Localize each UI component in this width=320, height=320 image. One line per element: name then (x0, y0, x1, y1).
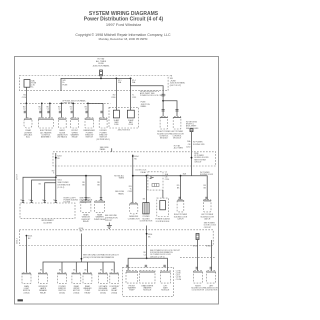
connector tick S3 (59, 111, 61, 113)
wire node down to cluster (55, 176, 57, 203)
component rear washer pump relay (95, 201, 105, 213)
instrument cluster dashed box (20, 203, 75, 218)
svg-text:CIRCUIT: CIRCUIT (105, 220, 113, 222)
svg-text:C281: C281 (132, 97, 136, 99)
svg-text:BK: BK (111, 270, 114, 272)
svg-text:MODULE: MODULE (160, 138, 169, 140)
module2 connector ticks (176, 109, 179, 111)
ticks R1 (196, 267, 198, 269)
left bus wire 3 (45, 183, 56, 203)
page footer mark (18, 299, 23, 301)
svg-text:BK: BK (100, 270, 103, 272)
ground fan node (81, 258, 83, 260)
component module B (140, 271, 155, 283)
component power sliding door motor (143, 203, 149, 214)
wire relay to door module (162, 190, 164, 198)
svg-text:A/C): A/C) (26, 136, 30, 139)
svg-text:(G304): (G304) (111, 292, 117, 294)
component module C (160, 271, 170, 283)
svg-text:C126: C126 (22, 97, 26, 99)
dashed segment right of M (180, 257, 216, 259)
component right sliding door lock motor (193, 271, 202, 283)
svg-text:C270 8: C270 8 (16, 174, 18, 180)
component data link connector (130, 203, 138, 214)
right bus wire (133, 176, 207, 200)
svg-text:PANEL: PANEL (118, 193, 124, 196)
component interior lamps (39, 273, 48, 284)
svg-text:(W/ PWR WDO): (W/ PWR WDO) (96, 139, 110, 141)
component courtesy lamps (110, 273, 119, 284)
component rear washer pump (83, 273, 92, 284)
splice node S203 (55, 157, 57, 159)
component right power sliding door control module (160, 116, 168, 129)
ticks M drop 1 (126, 265, 128, 267)
svg-text:20A: 20A (187, 140, 191, 143)
svg-text:TIMES: TIMES (119, 178, 125, 180)
maxi fuse 1 box (113, 110, 119, 118)
body harness dashed band (53, 152, 216, 166)
svg-text:30 AMP: 30 AMP (128, 119, 134, 122)
svg-text:RELAY: RELAY (40, 291, 47, 294)
relay dashed box (148, 172, 163, 190)
svg-text:(G304): (G304) (24, 292, 30, 294)
component left sliding door lock motor (207, 271, 216, 283)
svg-text:MODULE: MODULE (143, 290, 152, 292)
component radio (58, 118, 66, 128)
svg-text:CONNECTOR: CONNECTOR (128, 218, 141, 220)
splice node S2b (49, 103, 51, 105)
wire S1 down (25, 103, 27, 117)
svg-text:C2: C2 (58, 109, 60, 111)
svg-text:PANEL: PANEL (141, 105, 147, 108)
connector tick S2 (39, 111, 41, 113)
svg-text:BK: BK (39, 183, 42, 185)
splice node S204 (132, 155, 134, 157)
svg-text:CLUSTER: CLUSTER (43, 222, 52, 224)
svg-text:B+: B+ (31, 86, 33, 88)
splice node S4 (72, 103, 74, 105)
component front wiper (71, 118, 79, 128)
component power window switch (99, 118, 107, 128)
left bus wire 1 (23, 177, 56, 203)
svg-text:BK: BK (73, 270, 76, 272)
svg-text:W/S-B: W/S-B (206, 245, 212, 247)
svg-text:SWITCH: SWITCH (86, 137, 94, 139)
svg-text:CIRCUIT: CIRCUIT (204, 227, 212, 229)
svg-text:1997 Ford Windstar: 1997 Ford Windstar (106, 22, 142, 27)
junction node fuse feed (100, 78, 102, 80)
svg-text:W/S-B: W/S-B (193, 245, 199, 247)
svg-text:(1 OF 4): (1 OF 4) (58, 187, 65, 189)
svg-text:BK: BK (84, 270, 87, 272)
svg-text:BK: BK (143, 198, 146, 200)
svg-text:C2: C2 (85, 109, 87, 111)
maxi fuse 2 box (127, 110, 134, 118)
fan drop 2 (75, 262, 77, 273)
component main light switch (22, 273, 31, 284)
power distribution box dashed (109, 107, 139, 128)
module1 connector ticks (162, 109, 165, 111)
bus bar top (61, 78, 132, 91)
svg-text:LOCK MOTOR: LOCK MOTOR (192, 290, 205, 292)
svg-text:LATCH: LATCH (177, 217, 184, 220)
wire fan M feed (146, 257, 148, 259)
component left sliding door latch (204, 200, 212, 212)
fuse F2.11 symbol (100, 70, 103, 76)
component passenger power window (85, 118, 93, 128)
wire S4 down (72, 103, 74, 117)
component left power sliding door control module (173, 116, 181, 129)
fan drop 4 (102, 262, 104, 273)
splice node S206 (191, 157, 193, 159)
wire H1 down (132, 176, 134, 203)
ticks J (179, 197, 181, 199)
wire band down right 2 (211, 240, 213, 271)
door module inner box (160, 201, 166, 210)
wire J down (180, 176, 182, 200)
relay switch contact (150, 176, 154, 179)
svg-text:JUNCTION PANEL: JUNCTION PANEL (92, 64, 110, 67)
junction node F2.1 (116, 78, 118, 80)
svg-text:BK: BK (148, 236, 151, 238)
component right sliding door latch (177, 200, 184, 212)
svg-text:DOOR MODULE: DOOR MODULE (156, 221, 170, 223)
svg-text:CIRCUIT: CIRCUIT (194, 162, 202, 164)
svg-text:SLIDING DOOR: SLIDING DOOR (200, 174, 214, 176)
svg-text:RELAY: RELAY (72, 136, 79, 139)
svg-text:RELAY: RELAY (83, 220, 90, 223)
fan M bus (128, 258, 167, 270)
wire branch to sliding door feed (131, 78, 164, 116)
wire right column down (191, 132, 193, 176)
svg-text:BK: BK (204, 188, 207, 190)
svg-text:BK: BK (28, 238, 31, 240)
wire F2.4 down to junction box (130, 78, 132, 110)
svg-text:(LEFT OF I/P): (LEFT OF I/P) (170, 85, 182, 87)
splice branch c6 (88, 103, 103, 117)
svg-text:C250: C250 (165, 179, 169, 181)
wire drop rear defrost relay (85, 176, 87, 201)
wire splice S203 down (55, 153, 57, 176)
svg-text:SLIDING DRS: SLIDING DRS (193, 144, 205, 146)
svg-text:30 AMP: 30 AMP (114, 119, 120, 122)
component rear window defrost relay (81, 201, 91, 213)
svg-text:30A: 30A (183, 173, 187, 176)
junction node F2.4 (130, 78, 132, 80)
svg-text:C2: C2 (23, 109, 25, 111)
power sliding door module dashed box (157, 198, 169, 216)
splice node S1 (25, 103, 27, 105)
svg-text:(G304): (G304) (73, 292, 79, 294)
svg-text:POWER DOOR LOCK CIRCUIT: POWER DOOR LOCK CIRCUIT (140, 95, 167, 97)
svg-text:ASSEMBLY: ASSEMBLY (41, 136, 52, 139)
ticks K (205, 197, 207, 199)
connector tick S2b (47, 111, 49, 113)
svg-text:PUMP: PUMP (129, 290, 135, 292)
connector tick S1 (24, 111, 26, 113)
liftgate module dashed box M (123, 267, 174, 296)
wire F2.1 down to junction box (115, 78, 117, 110)
svg-text:BK: BK (97, 184, 100, 186)
fuse in band symbol (196, 234, 199, 240)
wire split to control modules (163, 101, 177, 117)
svg-text:MODULE: MODULE (161, 290, 170, 292)
svg-text:MODULE: MODULE (173, 138, 182, 140)
svg-text:C280: C280 (111, 97, 115, 99)
svg-text:C2: C2 (39, 109, 41, 111)
svg-text:BK: BK (40, 270, 43, 272)
distribution node S201 (55, 176, 57, 178)
wire S5 down (87, 103, 89, 117)
right feed wire (56, 176, 101, 201)
fuse junction panel dashed box (20, 76, 169, 91)
relay internals (152, 184, 159, 187)
svg-text:FUSE: FUSE (129, 124, 133, 126)
ticks R2 (210, 267, 212, 269)
wire splice S204 down (132, 155, 134, 176)
svg-text:FUSE: FUSE (63, 84, 69, 86)
junction node H2 (146, 175, 148, 177)
circuit breaker symbol (190, 129, 193, 132)
svg-text:(G304): (G304) (100, 292, 106, 294)
wire S301 down (26, 236, 28, 273)
left bus wire 2 (32, 180, 56, 203)
svg-text:DOOR MOTOR: DOOR MOTOR (140, 221, 153, 223)
svg-text:BK: BK (59, 270, 62, 272)
component rear wiper motor (72, 273, 81, 284)
svg-text:BK: BK (177, 188, 180, 190)
wire S3 down (60, 103, 62, 117)
svg-text:RELAY: RELAY (84, 291, 91, 294)
svg-text:LATCH: LATCH (204, 217, 211, 220)
svg-text:JUNCTION BOX: JUNCTION BOX (118, 129, 131, 131)
component liftgate release (99, 273, 108, 284)
svg-text:C2: C2 (47, 109, 49, 111)
connector tick S6 (100, 111, 102, 113)
wire fuse to bus (100, 76, 102, 78)
svg-text:C250: C250 (186, 146, 190, 148)
component module A (126, 271, 138, 283)
splice node S3 (61, 103, 63, 105)
svg-text:RELAY: RELAY (141, 171, 148, 174)
svg-text:C301 4: C301 4 (16, 238, 18, 244)
svg-text:RD: RD (134, 159, 137, 161)
ground fan bus (43, 262, 114, 273)
svg-text:Monday, December 18, 2000 05:: Monday, December 18, 2000 05:39PM (99, 37, 148, 41)
svg-text:C4: C4 (144, 254, 146, 256)
svg-text:PANEL: PANEL (100, 148, 106, 151)
band label tick (111, 148, 113, 152)
splice bus dashed line (20, 102, 110, 104)
svg-text:ALL TIMES: ALL TIMES (174, 147, 184, 150)
svg-text:LOCK MOTOR: LOCK MOTOR (205, 290, 218, 292)
ticks M drop 2 (145, 265, 147, 267)
wire S304 down (146, 226, 148, 259)
wire S2 down (41, 103, 43, 117)
svg-text:(G304) FOR MORE INFORMATION: (G304) FOR MORE INFORMATION (83, 256, 115, 259)
connector tick S5 (85, 111, 87, 113)
diagram border frame (15, 57, 219, 305)
junction node J (180, 175, 182, 177)
component A/C heater control (38, 118, 53, 128)
svg-text:C268: C268 (128, 191, 132, 193)
junction node S210 (162, 100, 164, 102)
wire S2b down (49, 103, 51, 117)
wire fuse band down right 1 (197, 240, 199, 271)
ground G201 symbol (107, 223, 112, 229)
splice node S2 (41, 103, 43, 105)
box O entry ticks (22, 201, 57, 203)
svg-text:C5 WH: C5 WH (176, 279, 182, 281)
junction node defrost (85, 175, 87, 177)
connector tick S4 (71, 111, 73, 113)
splice node S5 (87, 103, 89, 105)
svg-text:DOORS: DOORS (64, 202, 71, 204)
battery feed solid box (24, 80, 30, 88)
ground distribution wire (80, 234, 82, 263)
branch connector ticks (162, 94, 165, 96)
junction node M (146, 257, 148, 259)
splice node S301 (26, 235, 28, 237)
component power mirrors (58, 273, 67, 284)
svg-text:BK: BK (80, 231, 83, 233)
svg-text:C2: C2 (70, 109, 72, 111)
svg-text:FUSE: FUSE (114, 124, 118, 126)
component cigar lighter (24, 118, 32, 128)
wire H2 down (145, 176, 147, 203)
fan drop 1 (61, 262, 63, 273)
splice node S304 (146, 233, 148, 235)
fan drop 3 (87, 262, 89, 273)
wire battery box down to bus (26, 87, 28, 103)
junction node H1 (132, 175, 134, 177)
wire S5 branch to c6 (87, 102, 89, 104)
lower body harness dashed band (19, 230, 213, 246)
svg-text:8: 8 (53, 173, 54, 175)
svg-text:RD: RD (57, 158, 60, 160)
svg-text:BK: BK (82, 184, 85, 186)
svg-text:(G304): (G304) (59, 292, 65, 294)
ticks P1 P2 (85, 198, 102, 200)
ticks M drop 3 (163, 265, 165, 267)
svg-text:(W/ RADIO): (W/ RADIO) (57, 136, 67, 139)
